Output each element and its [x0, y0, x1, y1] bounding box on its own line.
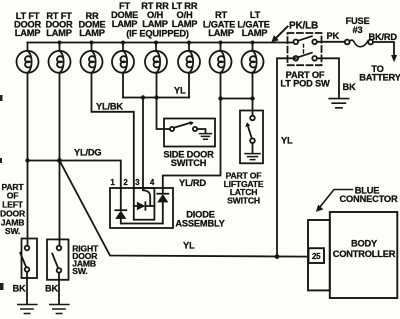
liftgate latch switch box: [240, 111, 263, 164]
label BLUE CONNECTOR: [340, 186, 398, 204]
label FUSE #3: [346, 16, 370, 35]
label PART OF LT POD SW: [280, 70, 330, 89]
wire pin 3 curve to D2 cathode: [143, 188, 150, 206]
svg-text:BATTERY: BATTERY: [359, 73, 400, 83]
wire YL diagonal to body controller pin 25: [60, 161, 309, 257]
label DIODE ASSEMBLY: [175, 210, 225, 229]
svg-text:LAMP: LAMP: [79, 28, 105, 38]
svg-text:YL/BK: YL/BK: [96, 102, 123, 112]
wire YL/BK L3 down to diode pin 2: [92, 73, 134, 188]
svg-text:YL: YL: [281, 136, 293, 146]
wire YL from LT POD SW down: [277, 58, 296, 256]
body controller 25-pin connector box: [308, 220, 330, 290]
body controller box: [330, 212, 398, 298]
svg-text:LAMP: LAMP: [142, 19, 168, 29]
label LT RR O/H LAMP: [172, 1, 198, 29]
wire YL/RD L7 to diode pin 4: [163, 99, 221, 189]
svg-text:YL/RD: YL/RD: [179, 178, 206, 188]
lamp L1 LT FT DOOR LAMP: [17, 43, 39, 73]
svg-text:SW.: SW.: [5, 226, 20, 236]
svg-text:LAMP: LAMP: [242, 28, 268, 38]
diode assembly inner box: [134, 188, 155, 220]
label RT FT DOOR LAMP: [45, 11, 73, 38]
wire L2 down to right door jamb switch: [59, 73, 61, 246]
svg-text:YL: YL: [183, 241, 195, 251]
wire liftgate bus: [221, 98, 253, 100]
svg-text:(IF EQUIPPED): (IF EQUIPPED): [126, 29, 189, 39]
label PART OF LIFTGATE LATCH SWITCH: [224, 171, 264, 206]
ground left jamb: [18, 305, 37, 314]
svg-text:ASSEMBLY: ASSEMBLY: [175, 219, 225, 229]
pin 25 box: [309, 248, 325, 263]
svg-text:25: 25: [312, 252, 321, 261]
lamp L5 RT RR O/H LAMP: [145, 43, 167, 73]
label LT FT DOOR LAMP: [14, 11, 42, 38]
svg-text:LAMP: LAMP: [15, 28, 41, 38]
svg-text:1: 1: [110, 178, 115, 187]
arrow PK/LB leader: [272, 27, 288, 42]
svg-text:BK: BK: [343, 82, 357, 92]
svg-text:SW.: SW.: [72, 266, 87, 276]
diode D1: [115, 188, 126, 224]
svg-text:YL/DG: YL/DG: [74, 148, 101, 158]
wire L4 down to dome bus: [122, 73, 124, 98]
label PART OF LEFT DOOR JAMB SW.: [0, 182, 26, 236]
diode D3: [157, 188, 168, 224]
scan artifact marks left edge: [0, 95, 4, 290]
svg-text:BK/RD: BK/RD: [369, 32, 398, 42]
wire top feed bus PK/LB: [28, 42, 294, 44]
svg-text:RT: RT: [215, 10, 228, 20]
svg-text:4: 4: [150, 178, 155, 187]
svg-text:SWITCH: SWITCH: [227, 195, 260, 205]
svg-text:LT POD SW: LT POD SW: [280, 79, 330, 89]
label SIDE DOOR SWITCH: [163, 150, 214, 169]
svg-text:LAMP: LAMP: [46, 28, 72, 38]
lamp L3 RR DOME LAMP: [81, 43, 103, 73]
label FT DOME LAMP: [111, 1, 138, 29]
lamp L4 FT DOME LAMP: [112, 43, 134, 73]
svg-text:BK: BK: [13, 283, 27, 293]
wire PK to fuse: [317, 41, 345, 43]
svg-text:LAMP: LAMP: [112, 19, 138, 29]
wire YL/DG horizontal to diode pin 1: [28, 161, 121, 189]
label RT L/GATE LAMP: [203, 10, 235, 38]
label TO BATTERY: [359, 64, 400, 83]
lamp L6 LT RR O/H LAMP: [178, 43, 200, 73]
side door switch box: [164, 119, 215, 147]
ground right jamb: [50, 305, 69, 314]
wire L5 down: [156, 73, 158, 98]
wire diode bottom rail: [121, 223, 163, 225]
right door jamb switch: [47, 239, 69, 304]
wire L1 down to left door jamb switch: [27, 73, 29, 246]
wire L5 branch to side door switch: [157, 98, 170, 130]
lamp L8 LT L/GATE LAMP: [242, 43, 264, 73]
label diode pin numbers 1 2 3 4: [110, 178, 155, 187]
ground pod switch BK: [329, 99, 348, 108]
label BODY CONTROLLER: [333, 239, 396, 260]
svg-text:LAMP: LAMP: [208, 28, 234, 38]
svg-text:#3: #3: [353, 25, 363, 35]
lamp L7 RT L/GATE LAMP: [210, 43, 232, 73]
diode assembly box: [110, 188, 173, 228]
diode D2: [134, 202, 155, 210]
LT POD switch dashed box: [288, 33, 322, 65]
wire L6 down: [188, 73, 190, 98]
svg-text:PK: PK: [327, 31, 340, 41]
svg-text:SWITCH: SWITCH: [171, 158, 207, 168]
svg-text:2: 2: [123, 178, 128, 187]
wire dome bus to diode pin 3: [142, 98, 144, 189]
svg-text:CONNECTOR: CONNECTOR: [340, 194, 398, 204]
svg-text:CONTROLLER: CONTROLLER: [333, 249, 396, 259]
wire L7 down: [220, 73, 222, 99]
label RT RR O/H LAMP: [141, 1, 169, 29]
svg-text:BODY: BODY: [351, 239, 378, 249]
lamp L2 RT FT DOOR LAMP: [49, 43, 71, 73]
label LT L/GATE LAMP: [237, 10, 269, 38]
wire BK/RD to battery with arrow: [373, 42, 397, 62]
svg-text:3: 3: [135, 178, 140, 187]
wire BK from pod switch to ground: [317, 58, 339, 98]
label RR DOME LAMP: [78, 11, 105, 38]
svg-text:LAMP: LAMP: [172, 19, 198, 29]
svg-text:LT: LT: [250, 10, 261, 20]
svg-text:YL: YL: [174, 86, 186, 96]
svg-text:PK/LB: PK/LB: [289, 21, 318, 32]
wire dome bus YL: [123, 97, 189, 99]
label RIGHT DOOR JAMB SW.: [72, 244, 99, 277]
LT POD switch contacts: [294, 36, 317, 60]
svg-text:BK: BK: [45, 283, 59, 293]
left door jamb switch: [20, 239, 37, 305]
fuse #3: [345, 40, 373, 47]
arrow BLUE CONNECTOR leader: [316, 190, 352, 212]
wire L8 down to liftgate latch switch: [252, 73, 254, 116]
